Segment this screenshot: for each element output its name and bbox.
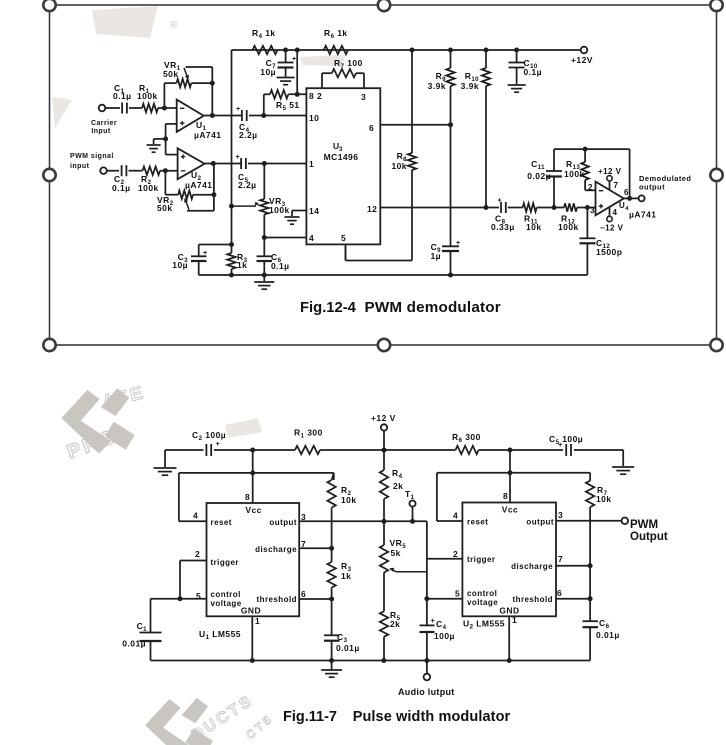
svg-text:1k: 1k: [341, 571, 351, 581]
svg-text:10k: 10k: [526, 222, 542, 232]
svg-text:PWM: PWM: [630, 519, 658, 531]
svg-text:C4: C4: [436, 619, 447, 631]
svg-text:3: 3: [558, 510, 563, 520]
svg-text:control: control: [211, 590, 241, 599]
svg-text:5k: 5k: [391, 548, 401, 558]
svg-text:Input: Input: [91, 128, 111, 135]
svg-text:10µ: 10µ: [260, 67, 276, 77]
svg-text:1: 1: [309, 159, 314, 169]
svg-text:reset: reset: [211, 518, 232, 527]
svg-text:+: +: [292, 56, 297, 63]
svg-text:µA741: µA741: [194, 130, 221, 140]
svg-text:1µ: 1µ: [430, 251, 441, 261]
svg-text:100k: 100k: [558, 222, 579, 232]
svg-text:100k: 100k: [138, 183, 159, 193]
svg-text:reset: reset: [467, 518, 488, 527]
svg-text:4: 4: [309, 233, 314, 243]
svg-text:8: 8: [245, 492, 250, 502]
svg-text:+: +: [203, 250, 208, 257]
svg-text:Vcc: Vcc: [245, 505, 261, 515]
svg-text:5: 5: [455, 589, 460, 599]
svg-text:output: output: [639, 183, 665, 192]
svg-text:1: 1: [255, 616, 260, 626]
svg-text:2: 2: [195, 549, 200, 559]
svg-text:3.9k: 3.9k: [428, 81, 446, 91]
svg-text:14: 14: [309, 206, 319, 216]
svg-text:output: output: [269, 518, 297, 527]
svg-text:R4 1k: R4 1k: [252, 28, 276, 40]
svg-text:10k: 10k: [596, 494, 612, 504]
svg-text:3: 3: [361, 92, 366, 102]
svg-text:6: 6: [301, 589, 306, 599]
svg-text:+: +: [236, 154, 241, 161]
svg-text:3: 3: [301, 512, 306, 522]
svg-text:0.01µ: 0.01µ: [122, 639, 146, 649]
svg-text:0.1µ: 0.1µ: [524, 67, 543, 77]
svg-text:input: input: [70, 163, 90, 170]
svg-text:3: 3: [590, 206, 595, 215]
svg-text:R6 300: R6 300: [452, 432, 481, 444]
svg-text:4: 4: [193, 511, 198, 521]
svg-text:Vcc: Vcc: [502, 505, 518, 515]
svg-text:PWM signal: PWM signal: [70, 153, 114, 160]
svg-text:C11: C11: [531, 159, 545, 171]
svg-text:GND: GND: [499, 606, 519, 616]
svg-text:0.01µ: 0.01µ: [336, 643, 360, 653]
svg-text:0.02µ: 0.02µ: [527, 171, 551, 181]
svg-text:MC1496: MC1496: [324, 152, 359, 162]
svg-text:4: 4: [613, 208, 618, 217]
svg-text:threshold: threshold: [513, 595, 554, 604]
svg-text:4: 4: [453, 511, 458, 521]
svg-text:8: 8: [503, 491, 508, 501]
svg-text:T1: T1: [405, 489, 415, 501]
svg-text:+: +: [456, 240, 461, 247]
svg-text:100k: 100k: [137, 91, 158, 101]
svg-text:−12 V: −12 V: [600, 224, 624, 233]
svg-text:2.2µ: 2.2µ: [239, 130, 258, 140]
svg-text:voltage: voltage: [211, 599, 242, 608]
svg-text:R7 100: R7 100: [334, 58, 363, 70]
svg-text:Carrier: Carrier: [91, 120, 117, 127]
svg-text:7: 7: [614, 181, 619, 190]
svg-text:50k: 50k: [163, 69, 179, 79]
svg-text:5: 5: [341, 233, 346, 243]
svg-text:8 2: 8 2: [309, 91, 322, 101]
svg-text:3.9k: 3.9k: [461, 81, 479, 91]
svg-text:7: 7: [558, 554, 563, 564]
svg-text:threshold: threshold: [257, 595, 298, 604]
svg-text:®: ®: [170, 20, 178, 31]
svg-text:6: 6: [369, 123, 374, 133]
svg-text:2k: 2k: [390, 619, 400, 629]
svg-text:+12V: +12V: [571, 55, 593, 65]
svg-text:discharge: discharge: [255, 545, 297, 554]
svg-text:0.1µ: 0.1µ: [112, 183, 131, 193]
svg-text:R6 1k: R6 1k: [324, 28, 348, 40]
svg-text:10k: 10k: [341, 495, 357, 505]
svg-text:0.1µ: 0.1µ: [271, 261, 290, 271]
svg-text:Output: Output: [630, 531, 668, 543]
svg-text:C1: C1: [137, 621, 148, 633]
svg-text:+12 V: +12 V: [598, 167, 622, 176]
svg-text:12: 12: [367, 204, 377, 214]
svg-text:+: +: [498, 198, 503, 205]
svg-text:R5 51: R5 51: [276, 100, 300, 112]
svg-text:+: +: [216, 439, 221, 448]
svg-text:10: 10: [309, 113, 319, 123]
svg-text:0.1µ: 0.1µ: [113, 91, 132, 101]
svg-text:Fig.11-7: Fig.11-7: [283, 709, 337, 725]
svg-text:1500p: 1500p: [596, 247, 622, 257]
svg-text:0.01µ: 0.01µ: [596, 630, 620, 640]
svg-text:1k: 1k: [237, 260, 247, 270]
svg-text:CT5: CT5: [243, 711, 276, 742]
svg-text:+: +: [236, 106, 241, 113]
svg-text:1: 1: [512, 615, 517, 625]
svg-text:100k: 100k: [269, 205, 290, 215]
svg-text:100k: 100k: [564, 169, 585, 179]
svg-text:+12 V: +12 V: [371, 413, 396, 423]
svg-text:R4: R4: [392, 468, 403, 480]
svg-text:C2 100µ: C2 100µ: [192, 430, 226, 442]
svg-text:0.33µ: 0.33µ: [491, 222, 515, 232]
svg-text:U4: U4: [619, 201, 629, 212]
svg-text:trigger: trigger: [467, 555, 496, 564]
svg-text:C6: C6: [599, 618, 610, 630]
svg-text:discharge: discharge: [511, 562, 553, 571]
svg-text:100µ: 100µ: [434, 631, 455, 641]
svg-text:U1 LM555: U1 LM555: [199, 629, 241, 641]
svg-text:2: 2: [588, 183, 593, 192]
svg-text:6: 6: [624, 188, 629, 197]
svg-text:10k: 10k: [391, 161, 407, 171]
svg-text:Pulse width modulator: Pulse width modulator: [353, 709, 511, 725]
svg-text:10µ: 10µ: [172, 260, 188, 270]
svg-text:voltage: voltage: [467, 598, 498, 607]
svg-text:PWM demodulator: PWM demodulator: [365, 299, 501, 316]
svg-text:GND: GND: [241, 606, 261, 616]
svg-text:6: 6: [557, 588, 562, 598]
svg-text:µA741: µA741: [629, 210, 656, 220]
svg-text:Audio lutput: Audio lutput: [398, 687, 455, 697]
svg-text:2.2µ: 2.2µ: [238, 180, 257, 190]
svg-text:U2 LM555: U2 LM555: [463, 619, 505, 631]
svg-text:+: +: [431, 616, 436, 625]
svg-text:2k: 2k: [393, 481, 403, 491]
svg-text:2: 2: [453, 549, 458, 559]
svg-text:50k: 50k: [157, 203, 173, 213]
svg-text:control: control: [467, 589, 497, 598]
svg-text:output: output: [526, 518, 554, 527]
svg-text:R1 300: R1 300: [294, 428, 323, 440]
svg-text:trigger: trigger: [211, 558, 240, 567]
svg-text:Fig.12-4: Fig.12-4: [300, 300, 357, 316]
svg-text:ATE: ATE: [100, 382, 147, 412]
